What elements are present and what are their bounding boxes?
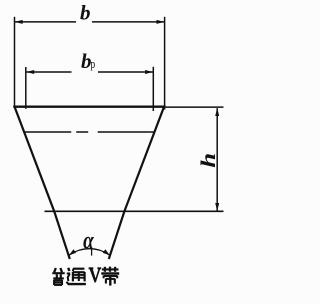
glyph V (Latin) (89, 268, 102, 283)
svg-text:p: p (90, 56, 95, 71)
dimension h: vertical dimension line with arrows (215, 108, 219, 211)
belt left flank (slanted object line) (14, 106, 70, 259)
label b_p (pitch width) (81, 49, 95, 73)
svg-text:h: h (198, 153, 221, 168)
extension line left for b_p (25, 67, 27, 109)
angle dimension arc for alpha (69, 249, 110, 256)
glyph 普 (52, 268, 64, 285)
svg-text:α: α (83, 228, 94, 255)
dimension b_p: pitch width dimension line with arrows (26, 70, 153, 74)
glyph 通 (66, 268, 86, 284)
extension line right for b_p (152, 67, 154, 111)
belt top edge (thick object line) (13, 105, 165, 107)
label h (belt height), rotated (198, 153, 221, 168)
extension line for h (top) (166, 106, 224, 108)
center tick on angle arc (91, 247, 93, 255)
svg-text:b: b (80, 0, 91, 24)
caption 普通V带 (ordinary V-belt), CJK drawn as strokes (52, 267, 119, 286)
extension line left for b (14, 17, 16, 108)
extension line right for b (164, 17, 166, 110)
belt right flank (slanted object line) (109, 106, 165, 259)
dimension b: horizontal dimension line with arrows (15, 20, 165, 24)
pitch line (chain line) (24, 131, 155, 133)
glyph 带 (101, 267, 119, 286)
belt bottom line + extension line for h (bottom) (45, 210, 224, 212)
